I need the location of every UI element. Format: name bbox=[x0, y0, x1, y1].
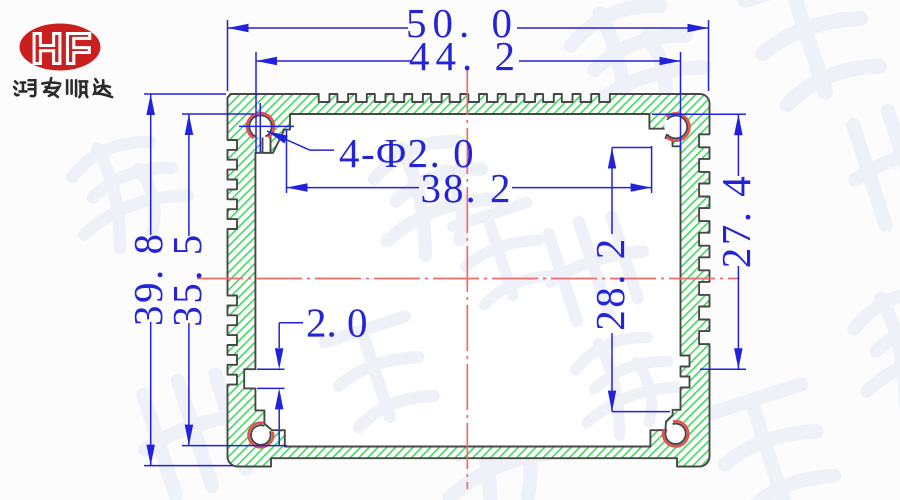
svg-text:HF: HF bbox=[31, 24, 93, 73]
svg-text:35. 5: 35. 5 bbox=[164, 232, 210, 326]
svg-text:4-Φ2. 0: 4-Φ2. 0 bbox=[339, 130, 475, 176]
svg-text:28. 2: 28. 2 bbox=[587, 236, 633, 331]
svg-text:2. 0: 2. 0 bbox=[306, 300, 368, 346]
svg-text:27. 4: 27. 4 bbox=[713, 174, 759, 269]
svg-text:44. 2: 44. 2 bbox=[409, 33, 521, 79]
